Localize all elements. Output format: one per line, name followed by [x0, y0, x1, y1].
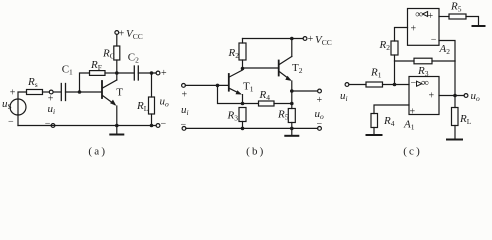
wire C2 to output node: [138, 72, 156, 74]
wire A1 +in to R4: [374, 105, 409, 114]
resistor R4: [259, 89, 275, 106]
capacitor C2: [128, 52, 139, 81]
voltage source uS: [10, 99, 26, 115]
svg-text:( a ): ( a ): [88, 145, 105, 157]
wire collector node to T2 base: [243, 67, 279, 69]
svg-text:C1: C1: [62, 64, 73, 77]
wire R5 to ground: [466, 17, 479, 26]
node R3 bottom junction: [241, 127, 245, 131]
wire RC to collector node: [116, 60, 118, 73]
wire R3 to bottom rail: [242, 122, 244, 129]
svg-text:+: +: [119, 28, 125, 39]
svg-text:−: −: [8, 117, 14, 128]
wire right column down to output: [454, 61, 456, 96]
svg-text:ui: ui: [48, 103, 56, 116]
svg-text:−: −: [431, 35, 437, 46]
node output junction (c): [453, 94, 457, 98]
svg-text:ui: ui: [340, 90, 348, 103]
svg-text:+: +: [317, 95, 323, 106]
wire rail corner to R2: [242, 39, 244, 44]
ground (c R4): [367, 128, 382, 136]
wire R2 to collector node: [242, 60, 244, 69]
svg-text:T2: T2: [292, 62, 303, 75]
node T2 collector junction: [290, 37, 294, 41]
wire node up through R3 row to R2: [394, 55, 396, 85]
svg-text:R5: R5: [450, 1, 462, 14]
svg-text:RC: RC: [102, 48, 115, 61]
resistor RC: [102, 46, 120, 61]
svg-text:Rs: Rs: [27, 76, 38, 89]
node collector junction: [115, 71, 119, 75]
node T2 emitter output junction: [290, 89, 294, 93]
top rail (b): [243, 38, 304, 40]
terminal uo- (b): [318, 126, 322, 130]
node R5 bottom junction: [290, 127, 294, 131]
bottom rail (b): [186, 127, 318, 129]
svg-text:+: +: [161, 68, 167, 79]
resistor RL: [136, 97, 155, 114]
svg-text:( b ): ( b ): [246, 145, 264, 157]
svg-text:VCC: VCC: [126, 28, 143, 41]
svg-text:−: −: [45, 119, 51, 130]
svg-text:−: −: [161, 119, 167, 130]
svg-text:VCC: VCC: [315, 34, 332, 47]
svg-text:R5: R5: [277, 109, 289, 122]
wire C1 to base node: [66, 91, 102, 93]
wire R3 row right: [432, 60, 455, 62]
svg-text:uS: uS: [2, 98, 12, 111]
svg-text:T: T: [116, 87, 123, 99]
op-amp A2: [408, 8, 451, 56]
terminal uo+: [156, 71, 160, 75]
svg-text:R4: R4: [259, 89, 271, 102]
node emitter junction: [115, 124, 119, 128]
wire source top to Rs: [18, 92, 27, 99]
resistor R5 (c): [449, 1, 466, 20]
resistor R1: [366, 66, 383, 87]
svg-text:A2: A2: [439, 43, 451, 56]
ground: [110, 126, 123, 135]
svg-text:T1: T1: [243, 81, 254, 94]
terminal +VCC (b): [303, 37, 307, 41]
wire Rs to ui terminal: [43, 91, 50, 93]
ground (c RL): [447, 126, 462, 140]
svg-text:RL: RL: [459, 113, 472, 126]
ground (c R5): [473, 25, 485, 27]
resistor RF: [90, 59, 106, 75]
wire R1 to A1 inverting input: [383, 84, 410, 86]
svg-text:∞: ∞: [421, 77, 429, 89]
node RL bottom junction: [150, 124, 154, 128]
wire R5 to bottom rail: [291, 123, 293, 129]
node base T1 junction: [216, 84, 220, 88]
transistor T1: [229, 69, 254, 104]
wire output node to RL: [454, 96, 456, 108]
wire A1 output: [439, 95, 464, 97]
terminal uo+ (b): [318, 89, 322, 93]
svg-text:RL: RL: [136, 100, 149, 113]
node output junction: [150, 71, 154, 75]
svg-text:R1: R1: [370, 66, 382, 79]
resistor RL (c): [452, 108, 472, 127]
node base junction: [78, 90, 82, 94]
capacitor C1: [61, 64, 73, 101]
svg-text:+: +: [428, 11, 434, 22]
node R5 top junction: [290, 102, 294, 106]
wire base node down to R4 row: [218, 85, 243, 103]
svg-text:+: +: [182, 90, 188, 101]
wire ui to R1: [349, 84, 366, 86]
svg-text:R2: R2: [379, 39, 391, 52]
resistor R5: [277, 109, 295, 123]
resistor R2: [228, 43, 247, 60]
svg-text:R3: R3: [227, 110, 239, 123]
resistor R3 (c): [414, 58, 432, 78]
ground (b): [285, 128, 298, 135]
transistor T: [102, 73, 123, 126]
wire collector node to C2: [117, 72, 134, 74]
wire base node up to RF: [80, 73, 90, 92]
wire output node to RL: [151, 73, 153, 97]
bottom rail (a): [18, 125, 156, 127]
svg-text:C2: C2: [128, 52, 139, 65]
wire A2 +in to R5: [439, 16, 449, 18]
op-amp A1: [403, 77, 439, 132]
terminal ui-: [51, 124, 55, 128]
resistor R4 (c): [371, 114, 395, 129]
wire A2 -in down to R3 row: [439, 41, 455, 62]
svg-text:∞: ∞: [415, 8, 423, 20]
terminal ui- (b): [182, 126, 186, 130]
svg-text:ui: ui: [181, 104, 189, 117]
wire output row (b): [292, 90, 318, 92]
svg-text:+: +: [429, 91, 435, 102]
resistor R2 (c): [379, 39, 399, 55]
svg-text:−: −: [411, 78, 417, 89]
terminal +VCC: [115, 31, 119, 35]
wire RL to bottom rail: [151, 114, 153, 126]
svg-text:A1: A1: [403, 119, 415, 132]
wire terminal to C1: [53, 91, 61, 93]
svg-text:R2: R2: [228, 47, 240, 60]
wire output node down to R5: [291, 91, 293, 109]
svg-text:R4: R4: [383, 115, 395, 128]
wire source bottom to rail: [17, 114, 19, 125]
wire input to T1 base: [185, 84, 228, 86]
svg-text:+: +: [411, 24, 417, 35]
wire R4 left: [243, 103, 259, 105]
node A1 inverting junction: [393, 83, 397, 87]
terminal ui+: [49, 90, 53, 94]
wire R3 row left: [395, 60, 415, 62]
resistor Rs: [27, 76, 43, 95]
terminal ui+ (b): [182, 84, 186, 88]
transistor T2: [279, 39, 303, 92]
svg-text:+: +: [410, 106, 416, 117]
wire R4 right to R5 node: [274, 103, 292, 105]
wire RF to collector node: [105, 72, 117, 74]
wire VCC to RC: [116, 34, 118, 46]
svg-text:( c ): ( c ): [403, 146, 420, 158]
node emitter R4 junction: [241, 102, 245, 106]
svg-text:RF: RF: [90, 59, 102, 72]
wire R2 top to A2 output: [395, 28, 408, 42]
node R2 bottom junction: [241, 67, 245, 71]
terminal uo (c): [464, 94, 468, 98]
resistor R3: [227, 108, 247, 123]
svg-text:uo: uo: [471, 90, 481, 103]
svg-text:+: +: [308, 34, 314, 45]
terminal uo-: [156, 124, 160, 128]
terminal ui (c): [345, 83, 349, 87]
svg-text:uo: uo: [160, 96, 170, 109]
svg-text:+: +: [10, 88, 16, 99]
